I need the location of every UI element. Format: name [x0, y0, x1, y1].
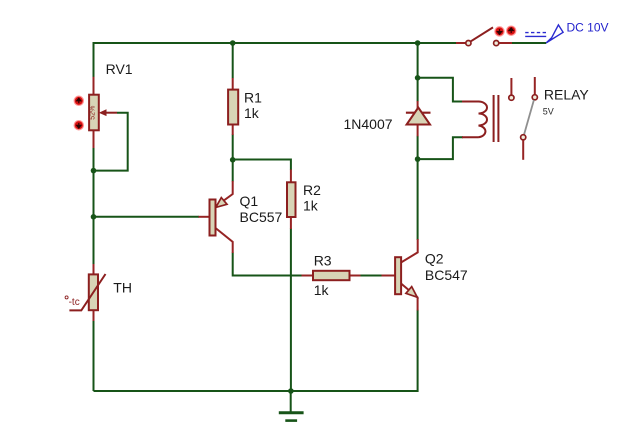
wire: diode bottom to lower node — [417, 136, 419, 160]
junction node: R1 at top rail — [230, 40, 236, 46]
switch SW1: toggle button up — [507, 27, 515, 35]
svg-text:R2: R2 — [303, 182, 321, 198]
potentiometer RV1: top pin — [93, 77, 95, 95]
junction node A: R1/R2/Q1 emitter — [230, 157, 236, 163]
svg-text:Q2: Q2 — [425, 250, 444, 266]
wire: node A down to Q1 emitter pin — [232, 160, 234, 182]
thermistor TH: top pin — [93, 264, 95, 275]
svg-text:1k: 1k — [244, 105, 260, 121]
wire: bottom ground rail — [94, 310, 418, 391]
resistor R1: body — [228, 90, 238, 125]
relay RL1: moving contact lever — [524, 100, 534, 135]
svg-text:-tc: -tc — [69, 297, 80, 308]
relay RL1: core lines — [494, 95, 499, 142]
potentiometer RV1: bottom pin — [93, 130, 95, 148]
transistor Q1: base pin — [199, 216, 210, 218]
wire: R3 right to Q2 base — [360, 275, 382, 277]
transistor Q2: emitter pin diagonal and down — [401, 284, 418, 311]
battery B1: terminal flag — [546, 25, 563, 43]
wire: node to TH top — [93, 216, 95, 265]
switch SW1: toggle button down — [495, 27, 503, 35]
svg-text:1N4007: 1N4007 — [344, 116, 393, 132]
relay RL1: NC contact terminal — [509, 95, 514, 100]
wire: top power rail — [94, 42, 458, 44]
wire: RV1 wiper loop — [96, 113, 128, 171]
svg-text:5V: 5V — [543, 106, 554, 116]
relay RL1: NO contact terminal — [532, 95, 537, 100]
svg-text:RV1: RV1 — [106, 61, 133, 77]
transistor Q1: collector pin diagonal and down — [216, 228, 233, 253]
thermistor TH: body — [89, 274, 98, 310]
wire: TH bottom to bottom rail — [93, 321, 95, 392]
junction node: relay coil top tap — [415, 75, 421, 81]
svg-text:DC 10V: DC 10V — [567, 20, 609, 34]
diode D1: bottom pin — [417, 125, 419, 137]
diode D1: cathode bar — [406, 112, 431, 114]
resistor R3: body — [313, 271, 350, 280]
switch SW1: right pin — [499, 42, 512, 44]
svg-text:BC557: BC557 — [240, 209, 283, 225]
potentiometer RV1: decrement button — [75, 121, 83, 129]
relay RL1: coil bottom lead — [462, 136, 479, 138]
junction node: wiper loop joins left rail — [91, 168, 97, 174]
thermistor TH: bottom pin — [93, 310, 95, 321]
wire: relay coil top connection — [418, 78, 463, 102]
svg-text:Q1: Q1 — [240, 193, 259, 209]
potentiometer RV1: wiper arrow — [104, 112, 117, 114]
relay RL1: coil top lead — [462, 101, 479, 103]
svg-text:R3: R3 — [314, 253, 332, 269]
svg-text:TH: TH — [113, 279, 132, 295]
wire: RV1 bottom to node — [93, 148, 95, 218]
switch SW1: pole terminal — [466, 41, 471, 46]
relay RL1: common terminal — [521, 135, 526, 140]
wire: R1 bottom to node A — [232, 134, 234, 161]
svg-text:52%: 52% — [89, 106, 96, 120]
switch SW1: throw terminal — [494, 41, 499, 46]
battery B1: solid positive plate — [525, 35, 546, 37]
potentiometer RV1: increment button — [75, 97, 83, 105]
resistor R1: bottom pin — [232, 125, 234, 136]
relay RL1: common pin stub — [522, 140, 524, 160]
transistor Q1: base bar body — [210, 200, 216, 236]
switch SW1: lever (open) — [471, 27, 493, 41]
junction node: ground tap on bottom rail — [288, 388, 294, 394]
potentiometer RV1: body — [89, 95, 99, 131]
svg-text:1k: 1k — [303, 197, 319, 213]
diode D1: anode triangle — [407, 108, 430, 125]
relay RL1: coil winding — [479, 102, 488, 138]
transistor Q2 BC547: collector pin — [401, 239, 418, 263]
transistor Q2: emitter arrowhead (NPN, outward) — [406, 287, 417, 298]
svg-text:1k: 1k — [314, 282, 330, 298]
transistor Q1: emitter arrowhead (PNP, into base bar) — [216, 198, 227, 208]
thermistor TH: diagonal stroke with foot — [69, 274, 105, 310]
transistor Q2: base pin — [382, 275, 396, 277]
wire: left vertical rail (top segment to RV1) — [93, 42, 95, 77]
wire: relay coil bottom connection — [418, 137, 463, 159]
svg-text:RELAY: RELAY — [544, 86, 590, 102]
wire: R2 bottom down to ground rail — [290, 228, 292, 391]
wire: relay/diode upper node down to diode — [417, 78, 419, 102]
wire: Q1 base wire from left rail — [94, 216, 200, 218]
resistor R2: bottom pin — [290, 217, 292, 229]
resistor R3: left pin — [302, 275, 315, 277]
resistor R3: right pin — [350, 275, 361, 277]
junction node: relay coil bottom tap / Q2 collector — [415, 156, 421, 162]
resistor R1: top pin — [232, 78, 234, 90]
wire: R1 top lead from rail — [232, 43, 234, 78]
resistor R2: top pin — [290, 170, 292, 184]
wire: diode branch from top rail — [417, 43, 419, 78]
ground symbol — [290, 391, 292, 412]
battery B1 DC 10V: dashed negative plate — [525, 32, 546, 34]
resistor R2: body — [287, 182, 296, 217]
svg-text:BC547: BC547 — [425, 267, 468, 283]
diode D1 1N4007: top pin — [417, 101, 419, 113]
transistor Q1 BC557: emitter pin from node A — [217, 181, 233, 206]
junction node: diode branch at top rail — [415, 40, 421, 46]
svg-text:R1: R1 — [244, 89, 262, 105]
transistor Q2: base bar body — [395, 257, 401, 294]
wire: Q1 collector to R3 — [233, 253, 302, 276]
wire: lower node down to Q2 collector pin — [417, 159, 419, 240]
junction node: base wire on left rail — [91, 214, 97, 220]
relay RL1: NC contact pin stub — [510, 78, 512, 95]
thermistor TH: -tc marking — [65, 296, 68, 299]
relay RL1: NO contact pin stub — [534, 77, 536, 94]
wire: top rail to battery (right of switch) — [511, 42, 546, 44]
wire: node A to R2 top — [233, 160, 291, 171]
switch SW1: left pin — [456, 42, 466, 44]
